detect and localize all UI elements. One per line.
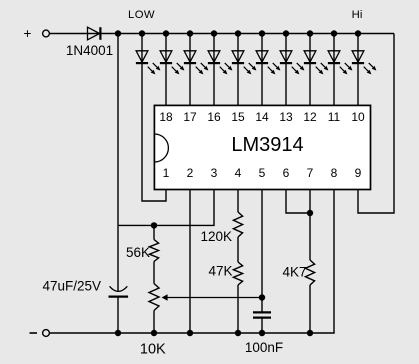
junction LED2 anode on bus — [163, 30, 169, 36]
svg-text:13: 13 — [279, 110, 293, 124]
junction LED10 anode on bus — [355, 30, 361, 36]
svg-text:120K: 120K — [200, 229, 232, 244]
junction LED3 anode on bus — [187, 30, 193, 36]
wire LED1 cathode down left side to pin 1 — [142, 63, 166, 201]
LED D4 (LED3) — [184, 34, 209, 75]
LED D10 (LED9) — [328, 34, 353, 75]
svg-text:4: 4 — [235, 166, 242, 180]
wire pin 8 REF ADJ to ground bus — [333, 190, 335, 334]
svg-text:47K: 47K — [208, 264, 232, 279]
junction LED7 anode on bus — [283, 30, 289, 36]
label LM3914 — [231, 134, 303, 156]
wire LED8 cathode to pin 12 — [309, 63, 311, 105]
wire LED9 cathode to pin 11 — [333, 63, 335, 105]
svg-text:14: 14 — [255, 110, 269, 124]
LED D6 (LED5) — [232, 34, 257, 75]
svg-text:8: 8 — [331, 166, 338, 180]
wire pin 5 signal input — [261, 190, 263, 313]
label 47uF/25V — [42, 279, 101, 294]
junction pot bottom on bus — [151, 330, 157, 336]
svg-text:10K: 10K — [140, 342, 166, 358]
junction pin2 on bus — [187, 330, 193, 336]
svg-text:3: 3 — [211, 166, 218, 180]
svg-text:100nF: 100nF — [245, 340, 283, 355]
svg-text:9: 9 — [355, 166, 362, 180]
label 120K — [200, 229, 232, 244]
junction 56K top on V+ rail — [151, 222, 157, 228]
- terminal — [30, 330, 50, 337]
wire LED2 cathode to pin 18 — [165, 63, 167, 105]
node LOW label — [128, 9, 155, 21]
pin numbers top row 18-10 — [159, 110, 365, 124]
junction 47K bottom on bus — [235, 330, 241, 336]
junction LED6 anode on bus — [259, 30, 265, 36]
junction 100nF bottom on bus — [259, 330, 265, 336]
junction LED5 anode on bus — [235, 30, 241, 36]
junction LED4 anode on bus — [211, 30, 217, 36]
resistor 56K — [149, 225, 158, 283]
svg-text:6: 6 — [283, 166, 290, 180]
wire LED10 cathode to pin 10 — [357, 63, 359, 105]
LED D9 (LED8) — [304, 34, 329, 75]
wire LED3 cathode to pin 17 — [189, 63, 191, 105]
resistor 4K7 on pin 7 REF OUT — [305, 190, 314, 334]
+ terminal — [24, 26, 50, 41]
svg-text:LOW: LOW — [128, 9, 155, 21]
label 56K — [126, 245, 150, 260]
wire LED6 cathode to pin 14 — [261, 63, 263, 105]
junction LED1 anode on bus — [139, 30, 145, 36]
label 47K — [208, 264, 232, 279]
svg-text:56K: 56K — [126, 245, 150, 260]
svg-text:15: 15 — [231, 110, 245, 124]
label 4K7 — [282, 265, 306, 280]
LED D7 (LED6) — [256, 34, 281, 75]
svg-text:17: 17 — [183, 110, 197, 124]
junction V+ tap on top bus — [115, 30, 121, 36]
wire ground bus — [50, 332, 335, 334]
junction 4K7 bottom on bus — [307, 330, 313, 336]
svg-text:11: 11 — [328, 110, 341, 124]
capacitor 100nF — [253, 312, 271, 333]
LED D2 (LED1) — [136, 34, 161, 75]
label 100nF — [245, 340, 283, 355]
label 1N4001 — [66, 43, 113, 58]
wire pin 6 RHI to pin 7 — [286, 190, 310, 214]
svg-text:7: 7 — [307, 166, 314, 180]
junction pin 6 - pin 7 tie — [307, 210, 313, 216]
svg-text:LM3914: LM3914 — [231, 134, 303, 156]
svg-text:16: 16 — [207, 110, 221, 124]
svg-text:47uF/25V: 47uF/25V — [42, 279, 101, 294]
wire pin 2 V- to ground bus — [189, 190, 191, 334]
junction wiper to pin 5 — [259, 294, 265, 300]
svg-text:Hi: Hi — [352, 9, 363, 21]
svg-text:5: 5 — [259, 166, 266, 180]
svg-text:10: 10 — [351, 110, 365, 124]
IC U1 LM3914 — [154, 105, 370, 189]
svg-text:12: 12 — [303, 110, 317, 124]
wire LED4 cathode to pin 16 — [213, 63, 215, 105]
svg-text:1N4001: 1N4001 — [66, 43, 113, 58]
LED D3 (LED2) — [160, 34, 185, 75]
junction LED9 anode on bus — [331, 30, 337, 36]
pin numbers bottom row 1-9 — [163, 166, 362, 180]
label 10K — [140, 342, 166, 358]
wire LED7 cathode to pin 13 — [285, 63, 287, 105]
resistor 120K — [233, 190, 242, 238]
resistor 47K — [233, 237, 242, 333]
node Hi label — [352, 9, 363, 21]
svg-text:+: + — [24, 26, 32, 41]
wire LED5 cathode to pin 15 — [237, 63, 239, 105]
junction cap- on bus — [115, 330, 121, 336]
potentiometer 10K — [149, 284, 159, 334]
svg-text:1: 1 — [163, 166, 170, 180]
junction LED8 anode on bus — [307, 30, 313, 36]
wire V+ rail from bus down to capacitor — [117, 34, 119, 292]
LED D11 (LED10) — [352, 34, 377, 75]
svg-text:2: 2 — [187, 166, 194, 180]
diode D1 1N4001 — [88, 27, 101, 40]
wire + terminal to top bus — [50, 33, 394, 35]
wire right side: top bus down to pin 9 MODE — [358, 34, 394, 214]
wiper arrow of 10K pot — [162, 294, 262, 300]
svg-text:18: 18 — [159, 110, 173, 124]
capacitor 47uF/25V electrolytic — [109, 286, 129, 333]
LED D5 (LED4) — [208, 34, 233, 75]
LED D8 (LED7) — [280, 34, 305, 75]
svg-text:4K7: 4K7 — [282, 265, 306, 280]
wire V+ horizontal to pin 3 — [118, 190, 214, 226]
